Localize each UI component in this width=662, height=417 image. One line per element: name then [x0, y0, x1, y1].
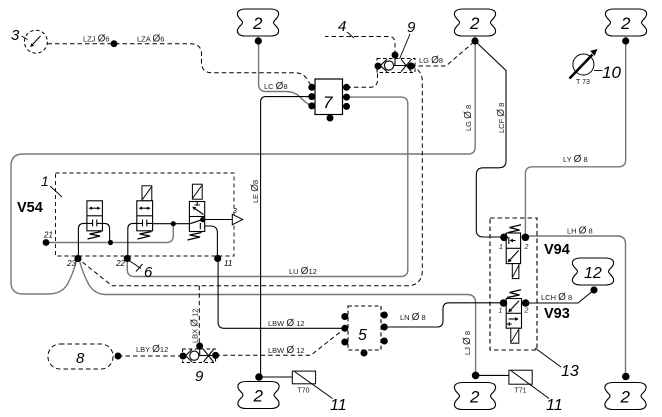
- block U7: [315, 79, 343, 115]
- label 6 + leader: [129, 261, 143, 272]
- svg-text:5: 5: [358, 327, 367, 344]
- node 23: [74, 255, 81, 262]
- svg-text:T70: T70: [297, 388, 309, 395]
- svg-text:LG Ø 8: LG Ø 8: [463, 105, 474, 131]
- svg-text:T71: T71: [514, 388, 526, 395]
- T71 drain box: [509, 370, 532, 384]
- wire LU loop (block 7 right-middle to node 22): [127, 97, 408, 276]
- svg-text:2: 2: [469, 14, 480, 33]
- svg-text:LY Ø 8: LY Ø 8: [563, 154, 588, 165]
- block 5 dashed: [348, 306, 381, 350]
- T70 drain box: [292, 371, 315, 384]
- svg-text:3: 3: [11, 27, 20, 44]
- svg-text:3: 3: [233, 208, 237, 215]
- junction on valve B-C line: [171, 221, 176, 226]
- svg-text:2: 2: [524, 244, 529, 251]
- svg-text:LJ Ø 8: LJ Ø 8: [462, 331, 473, 355]
- svg-text:13: 13: [561, 363, 579, 380]
- node 11: [214, 255, 221, 262]
- dashed long pilot (shuttle valve 9 down to node 23): [78, 66, 422, 286]
- dashed pilot line 4 (shuttle valve 9 top port): [325, 37, 395, 56]
- svg-text:LBW Ø 12: LBW Ø 12: [268, 345, 305, 356]
- item 3 gauge circle dashed: [24, 30, 47, 53]
- svg-text:1: 1: [41, 173, 49, 189]
- label 13 + leader: [535, 348, 561, 367]
- svg-text:9: 9: [407, 19, 416, 36]
- connector 2 bottom-right: [454, 372, 495, 410]
- svg-text:2: 2: [253, 387, 264, 406]
- svg-text:T 73: T 73: [576, 79, 590, 86]
- valve C right port wire to node 11: [205, 226, 218, 259]
- node 22: [124, 255, 131, 262]
- valve B spring: [138, 232, 152, 240]
- wire valve B to valve C: [153, 223, 190, 225]
- svg-text:LH Ø 8: LH Ø 8: [567, 226, 593, 237]
- svg-text:LBX Ø 12: LBX Ø 12: [190, 309, 201, 343]
- svg-text:8: 8: [76, 350, 85, 367]
- svg-text:11: 11: [224, 259, 232, 268]
- connector 12: [572, 258, 613, 294]
- dashed wire LBX (down to shuttle valve 9 bottom): [198, 286, 200, 346]
- valve C spring: [188, 233, 202, 241]
- svg-text:12: 12: [584, 265, 602, 282]
- svg-text:4: 4: [338, 18, 346, 35]
- svg-text:V54: V54: [17, 200, 43, 216]
- svg-text:11: 11: [546, 397, 563, 414]
- line labels: [83, 34, 593, 357]
- wire LCH (V93 port2 to connector 12): [526, 290, 594, 303]
- svg-text:LBW Ø 12: LBW Ø 12: [268, 318, 305, 329]
- svg-text:LZJ Ø6: LZJ Ø6: [83, 34, 110, 45]
- shuttle valve top dots: [375, 63, 382, 70]
- valve A spring: [88, 232, 102, 240]
- valve A body: [87, 201, 103, 231]
- valve A port wires: [78, 223, 87, 258]
- svg-text:23: 23: [66, 259, 76, 268]
- block 5 port dots: [341, 312, 388, 357]
- svg-text:1: 1: [499, 308, 503, 315]
- block 7 port dots: [308, 84, 350, 122]
- wire LY (V94 port2 up to 2 top-far): [525, 41, 625, 238]
- wire LBW 1 (node 11 to block 5): [218, 259, 345, 329]
- svg-text:LBY Ø12: LBY Ø12: [136, 344, 168, 355]
- shuttle valve 9 bottom: [183, 346, 216, 363]
- wire LG grand loop (2 top-right, around V54, down to 2 bottom-right as LJ): [11, 41, 476, 375]
- svg-text:LC Ø8: LC Ø8: [264, 81, 288, 92]
- svg-text:6: 6: [144, 264, 153, 281]
- svg-text:LZA Ø6: LZA Ø6: [137, 34, 164, 45]
- svg-text:LN Ø 8: LN Ø 8: [400, 312, 426, 323]
- connector 2 top-right: [454, 9, 495, 45]
- svg-text:V93: V93: [544, 306, 570, 322]
- junction port 3: [200, 217, 205, 222]
- svg-text:9: 9: [195, 368, 204, 385]
- valve B port wires: [128, 223, 137, 258]
- wire stub to T71: [476, 374, 509, 376]
- valve C body: [189, 202, 204, 232]
- valve V93: [506, 290, 521, 343]
- node 21: [43, 239, 50, 246]
- svg-text:LCH Ø 8: LCH Ø 8: [541, 292, 572, 303]
- svg-text:10: 10: [602, 63, 621, 82]
- svg-text:V94: V94: [544, 242, 570, 258]
- dashed box V94/V93: [490, 218, 537, 350]
- valve C solenoid: [192, 184, 202, 199]
- wire LN (block 5 to V93 port1): [384, 303, 504, 327]
- dashed wire LBW 2 (shuttle valve 9 bottom to block 5): [216, 329, 344, 355]
- dashed wire LG (shuttle valve 9 to 2 top-right): [411, 41, 475, 66]
- shuttle valve bottom dots: [180, 353, 187, 360]
- svg-text:LU Ø12: LU Ø12: [289, 266, 317, 277]
- svg-text:2: 2: [524, 308, 529, 315]
- wire node 21 line: [46, 224, 173, 243]
- dashed wire block 7 top-right to shuttle valve 9: [347, 66, 378, 87]
- svg-text:2: 2: [469, 388, 480, 407]
- gauge 10 T73: [573, 54, 594, 75]
- wire LH (V94 port2 right and down to 2 bottom-far): [525, 236, 625, 377]
- svg-text:2: 2: [252, 14, 263, 33]
- V94 port dots: [500, 234, 508, 242]
- svg-text:21: 21: [43, 231, 53, 240]
- wire LE (block 7 left-middle down to 2 bottom-mid): [261, 97, 311, 377]
- valve V94: [506, 225, 521, 279]
- dashed wire LBY (item 8 to shuttle valve 9 bottom): [118, 355, 183, 357]
- item 8 junction dot: [115, 353, 122, 360]
- svg-text:2: 2: [620, 388, 631, 407]
- node on LZ line: [111, 40, 118, 47]
- connector 2 bottom-mid: [238, 373, 279, 408]
- connector 2 top-far: [605, 9, 646, 45]
- wire LC (2 top-mid to block 7): [259, 41, 311, 106]
- svg-text:2: 2: [620, 14, 631, 33]
- svg-text:LE Ø8: LE Ø8: [250, 180, 261, 203]
- svg-text:22: 22: [115, 259, 125, 268]
- wire LCF (2 top-right to V94 port1): [475, 41, 506, 237]
- svg-text:1: 1: [499, 244, 503, 251]
- dashed wire LZJ/LZA (item 3 to block 7 top-left): [48, 44, 312, 86]
- connector 2 top-mid: [237, 9, 278, 45]
- junction valve A right on 21 line: [108, 240, 113, 245]
- svg-text:LCF Ø 8: LCF Ø 8: [496, 103, 507, 133]
- valve B body: [137, 201, 153, 231]
- svg-text:7: 7: [323, 93, 333, 112]
- dashed box 1 (V54 internals): [56, 173, 235, 256]
- port 3 line and open arrow: [203, 219, 233, 221]
- connector 2 bottom-far: [605, 373, 646, 410]
- svg-text:LG Ø8: LG Ø8: [419, 55, 443, 66]
- valve B solenoid: [142, 186, 152, 201]
- svg-text:11: 11: [330, 397, 347, 414]
- shuttle valve 9 top: [377, 55, 415, 73]
- wire stub to T70: [259, 376, 292, 378]
- item 8 dashed stadium: [48, 344, 113, 369]
- V93 port dots: [500, 299, 508, 307]
